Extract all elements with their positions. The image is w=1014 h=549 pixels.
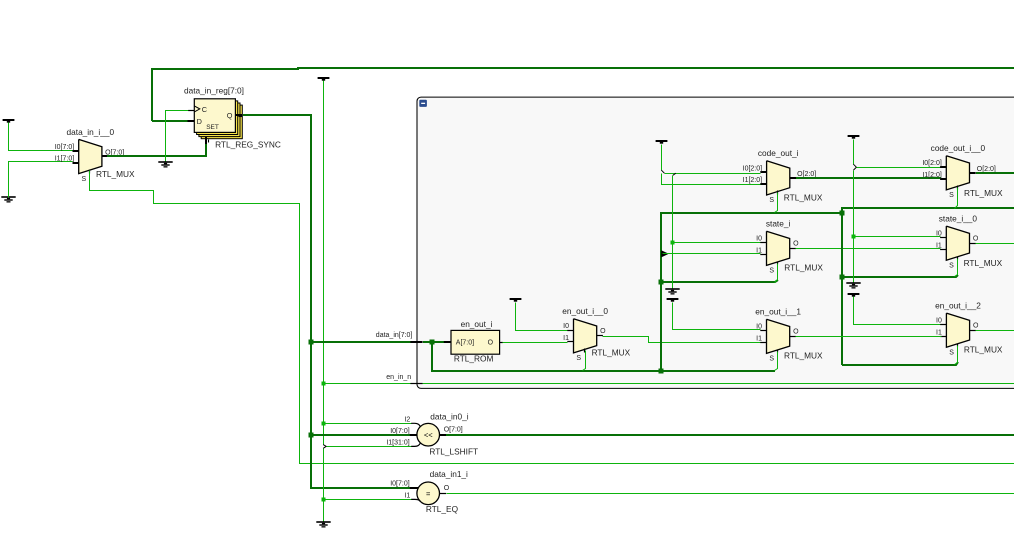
svg-text:SET: SET: [206, 124, 219, 131]
svg-text:RTL_MUX: RTL_MUX: [96, 169, 135, 179]
svg-text:I0[7:0]: I0[7:0]: [55, 144, 75, 151]
svg-text:I0[2:0]: I0[2:0]: [743, 165, 763, 172]
svg-text:RTL_MUX: RTL_MUX: [964, 188, 1003, 198]
wire en_out_i__0 S leg: [583, 351, 586, 371]
junction state_i__0 I0: [852, 235, 856, 239]
wire jog to lshift I1: [323, 445, 326, 449]
wire vcc col3 down: [661, 145, 663, 171]
junction ring2 meets ring1: [840, 211, 845, 216]
svg-text:I2: I2: [404, 416, 410, 423]
svg-text:O[2:0]: O[2:0]: [797, 171, 816, 178]
wire rom O to en_out_i__0 I1: [503, 342, 568, 344]
ground col3b: [665, 288, 679, 290]
svg-text:C: C: [202, 105, 207, 114]
wire mux O to register: [107, 143, 206, 156]
svg-text:en_in_n: en_in_n: [386, 374, 411, 381]
ground left: [1, 196, 15, 198]
mux code_out_i__0 body: [946, 156, 969, 190]
svg-text:S: S: [769, 356, 774, 363]
svg-text:RTL_MUX: RTL_MUX: [784, 193, 823, 203]
svg-text:O[2:0]: O[2:0]: [977, 166, 996, 173]
power vcc en_out_i__0: [510, 298, 522, 300]
svg-text:en_out_i: en_out_i: [461, 319, 493, 329]
wire col3 I0 feed: [665, 173, 761, 175]
wire code_out_i S leg: [775, 193, 778, 213]
rom pin stub A: [444, 341, 451, 343]
mux en_out_i__2 body: [946, 313, 969, 347]
jog col3b: [673, 173, 676, 175]
svg-text:I1: I1: [936, 242, 942, 249]
wire bus ring2 bottom rail: [842, 275, 958, 277]
eq pin stub I0: [410, 487, 419, 489]
wire vcc to mux I0: [9, 123, 73, 151]
wire lshift I1: [327, 446, 412, 448]
svg-text:O: O: [793, 241, 799, 248]
svg-text:O: O: [488, 339, 494, 346]
svg-text:RTL_ROM: RTL_ROM: [454, 353, 494, 363]
wire en_out_i__0 O to en_out_i__1 I1: [603, 337, 761, 343]
wire const column lower: [323, 449, 325, 522]
mux data_in_i__0 pin stubs: [73, 150, 79, 152]
lshift data_in0_i body: [417, 423, 440, 446]
svg-text:en_out_i__2: en_out_i__2: [935, 301, 981, 311]
svg-text:O: O: [600, 328, 606, 335]
junction lshift I2: [322, 422, 326, 426]
wire code_out_i__0 S leg: [955, 188, 958, 209]
svg-text:O: O: [973, 323, 979, 330]
junction rom A tap: [430, 340, 435, 345]
mux state_i body: [767, 231, 790, 265]
mux code_out_i body: [767, 161, 790, 195]
register clock marker: [194, 106, 200, 112]
arrow state_i I1 tap: [661, 250, 669, 257]
wire col4 down to gnd: [853, 171, 855, 283]
svg-text:S: S: [949, 192, 954, 199]
svg-text:data_in0_i: data_in0_i: [430, 411, 468, 421]
svg-text:RTL_LSHIFT: RTL_LSHIFT: [429, 447, 478, 457]
register bottom stack stubs: [205, 137, 207, 144]
svg-text:data_in_i__0: data_in_i__0: [67, 127, 115, 137]
mux state_i pin stubs: [760, 242, 766, 244]
junction eq I1: [322, 498, 326, 502]
junction state_i I0: [671, 241, 675, 245]
mux en_out_i__1 pin stubs: [760, 330, 766, 332]
lshift pin stub I0: [410, 434, 417, 436]
junction ring1 rail: [659, 369, 664, 374]
junction en_in_n: [322, 382, 326, 386]
svg-text:I1: I1: [563, 335, 569, 342]
wire state_i__0 O out: [976, 243, 1014, 245]
wire en_out_i__2 S leg: [955, 346, 958, 365]
svg-text:code_out_i__0: code_out_i__0: [931, 143, 986, 153]
eq data_in1_i body: [417, 482, 440, 505]
wire state_i__0 S leg: [955, 259, 958, 277]
register Q stubs: [235, 114, 242, 116]
wire eq I1: [324, 499, 412, 501]
wire const column upper: [323, 81, 325, 445]
mux state_i__0 body: [946, 226, 969, 260]
svg-text:S: S: [949, 263, 954, 270]
svg-text:S: S: [576, 355, 581, 362]
svg-text:<<: <<: [424, 431, 433, 440]
svg-text:I1[2:0]: I1[2:0]: [922, 172, 942, 179]
mux data_in_i__0 body: [79, 139, 102, 173]
supply bar col3b: [667, 298, 679, 300]
svg-text:RTL_REG_SYNC: RTL_REG_SYNC: [215, 139, 281, 149]
svg-text:data_in[7:0]: data_in[7:0]: [376, 332, 413, 339]
collapse icon: [419, 100, 427, 107]
port stub en_in_n: [410, 383, 422, 385]
power vcc col3: [656, 140, 668, 142]
svg-text:I0: I0: [563, 323, 569, 330]
wire state_i__0 I0 feed: [854, 236, 941, 238]
wire lshift I2: [324, 423, 412, 425]
wire col3b to en_out_i__1 I0: [673, 303, 761, 330]
wire state_i I1 feed: [663, 253, 761, 255]
pin stub D: [188, 120, 195, 122]
svg-text:RTL_MUX: RTL_MUX: [964, 345, 1003, 355]
power vcc const column: [318, 77, 330, 79]
lshift pin stub O: [440, 434, 447, 436]
supply bar col4: [848, 293, 860, 295]
svg-text:en_out_i__1: en_out_i__1: [755, 307, 801, 317]
mux en_out_i__2 pin stubs: [940, 324, 946, 326]
mux state_i__0 pin stubs: [940, 237, 946, 239]
svg-text:=: =: [426, 489, 431, 498]
svg-text:I0[7:0]: I0[7:0]: [390, 428, 410, 435]
ground const column: [316, 521, 330, 523]
power vcc col4: [848, 135, 860, 137]
wire bus ring1 top rail: [661, 213, 842, 371]
svg-text:I1: I1: [756, 247, 762, 254]
wire bus data_in inside: [423, 341, 444, 343]
svg-text:O: O: [973, 236, 979, 243]
jog col3: [661, 170, 664, 173]
wire bus top from data_in_reg D feed: [152, 68, 1014, 121]
svg-text:O: O: [793, 329, 799, 336]
junction lshift I0 tap: [309, 433, 314, 438]
svg-text:en_out_i__0: en_out_i__0: [562, 306, 608, 316]
svg-text:data_in1_i: data_in1_i: [430, 469, 468, 479]
svg-text:I1: I1: [404, 493, 410, 500]
svg-text:I1[2:0]: I1[2:0]: [743, 177, 763, 184]
svg-text:state_i: state_i: [766, 219, 791, 229]
wire eq O out: [447, 493, 1014, 495]
ground below register: [158, 161, 172, 163]
svg-text:S: S: [949, 350, 954, 357]
svg-text:RTL_MUX: RTL_MUX: [784, 262, 823, 272]
rom en_out_i body: [451, 330, 500, 354]
svg-text:RTL_MUX: RTL_MUX: [784, 350, 823, 360]
svg-text:S: S: [82, 176, 87, 183]
wire state_i I0 feed: [673, 242, 761, 244]
mux code_out_i pin stubs: [760, 171, 766, 173]
ground col4: [846, 282, 860, 284]
eq pin stub I1 hook: [411, 499, 420, 501]
wire gnd to mux I1: [9, 162, 73, 198]
wire col4 I0 feed: [857, 167, 941, 169]
wire state_i S leg: [775, 264, 778, 283]
eq pin stub O: [440, 493, 446, 495]
wire state_i O to state_i__0 I1: [796, 248, 941, 250]
register data_in_reg stack: [201, 105, 242, 139]
wire select net data_in_i__0 S: [90, 171, 1014, 464]
svg-text:I0: I0: [936, 318, 942, 325]
wire bus data_in: [311, 341, 411, 343]
register data_in_reg body: [194, 99, 235, 133]
svg-text:RTL_MUX: RTL_MUX: [964, 258, 1003, 268]
mux code_out_i__0 pin stubs: [940, 166, 946, 168]
wire en_in_n: [324, 383, 411, 385]
svg-text:O[7:0]: O[7:0]: [444, 427, 463, 434]
svg-text:I1[31:0]: I1[31:0]: [386, 440, 409, 447]
junction ring2 bottom: [840, 275, 845, 280]
svg-text:O: O: [444, 485, 450, 492]
jog col4: [853, 164, 856, 170]
wire bus D input stub feed: [152, 120, 188, 122]
wire en_in_n inside: [423, 383, 1014, 385]
wire col3 to I1 corner: [662, 174, 761, 185]
svg-text:data_in_reg[7:0]: data_in_reg[7:0]: [184, 86, 244, 96]
svg-text:RTL_MUX: RTL_MUX: [592, 348, 631, 358]
svg-text:I0: I0: [936, 231, 942, 238]
svg-text:RTL_EQ: RTL_EQ: [426, 504, 459, 514]
wire bus Q output spine: [243, 115, 410, 488]
junction ring1 bottom: [659, 280, 664, 285]
rom pin stub O: [500, 342, 503, 344]
svg-text:I0: I0: [756, 324, 762, 331]
wire col4 to en_out_i__2 I0: [854, 297, 941, 325]
svg-text:S: S: [769, 268, 774, 275]
mux en_out_i__0 body: [574, 319, 597, 353]
svg-text:I0[7:0]: I0[7:0]: [390, 481, 410, 488]
wire col3b down to gnd: [672, 176, 674, 289]
svg-text:I1[7:0]: I1[7:0]: [55, 156, 75, 163]
svg-text:D: D: [197, 117, 202, 126]
power vcc left: [3, 119, 15, 121]
wire bus lshift I0: [311, 434, 410, 436]
wire bus lshift O out: [446, 434, 1014, 436]
svg-text:state_i__0: state_i__0: [939, 214, 978, 224]
port stub data_in: [410, 341, 422, 343]
wire en_out_i__1 O to en_out_i__2 I1: [796, 336, 942, 338]
wire vcc col4 down: [853, 140, 855, 165]
wire vcc to en_out_i__0 I0: [516, 303, 568, 331]
pin stub C: [188, 110, 194, 112]
junction data_in tap: [309, 340, 314, 345]
wire en_out_i__2 O out: [976, 330, 1014, 332]
svg-text:code_out_i: code_out_i: [758, 148, 799, 158]
wire bus ring1 bottom rail: [661, 280, 778, 282]
wire bus ring2 S rail en_out_i__2: [842, 362, 958, 365]
lshift pin stub I2 hook: [411, 423, 420, 427]
mux en_out_i__1 body: [767, 319, 790, 353]
wire bus code_out_i__0 O out: [976, 172, 1014, 174]
wire bus select rail drop: [432, 342, 775, 371]
hierarchical block container: [417, 97, 1014, 388]
register C input wire: [166, 111, 189, 163]
svg-text:A[7:0]: A[7:0]: [456, 339, 474, 346]
mux en_out_i__0 pin stubs: [567, 330, 573, 332]
svg-text:I0: I0: [756, 236, 762, 243]
svg-text:I1: I1: [936, 329, 942, 336]
svg-text:S: S: [769, 197, 774, 204]
lshift pin stub I1 hook: [411, 443, 420, 447]
svg-text:I0[2:0]: I0[2:0]: [922, 160, 942, 167]
wire bus code_out_i O to next: [796, 177, 941, 179]
wire en_out_i__1 S leg: [775, 352, 778, 371]
svg-text:Q: Q: [227, 111, 233, 120]
svg-text:I1: I1: [756, 335, 762, 342]
wire bus ring2 top rail: [842, 208, 1014, 365]
